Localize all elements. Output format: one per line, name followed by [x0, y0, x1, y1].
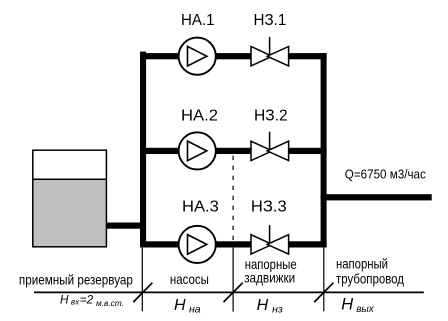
pump НА.1: [179, 38, 216, 75]
svg-text:=2: =2: [80, 293, 94, 306]
svg-text:насосы: насосы: [170, 271, 209, 287]
tank water fill: [33, 179, 106, 246]
right manifold pipe: [321, 53, 327, 247]
svg-text:Н: Н: [60, 293, 69, 306]
branch 2 pipe segment middle: [215, 148, 252, 154]
discharge pipe: [321, 194, 432, 200]
divider line right (x=323.8): [323, 248, 325, 312]
branch 1 pipe segment middle: [215, 53, 252, 59]
svg-text:Н: Н: [257, 297, 269, 314]
left manifold pipe: [140, 52, 146, 248]
branch 1 pipe segment left: [140, 53, 180, 59]
divider line middle (x=233.1): [232, 248, 234, 312]
svg-text:Q=6750 м3/час: Q=6750 м3/час: [345, 167, 426, 181]
valve НЗ.1: [251, 37, 289, 66]
divider line left (x=142.3): [141, 248, 143, 312]
valve НЗ.2: [251, 132, 289, 161]
slash mark 3: [314, 283, 333, 302]
head label Нвх =2 м.в.ст.: [60, 293, 124, 308]
pump НА.3: [179, 226, 216, 263]
svg-text:приемный резервуар: приемный резервуар: [19, 271, 133, 287]
tank water line: [33, 178, 106, 180]
svg-text:напорный: напорный: [336, 255, 388, 271]
branch 2 pipe segment right: [288, 148, 327, 154]
svg-text:на: на: [189, 304, 201, 316]
svg-text:НЗ.1: НЗ.1: [254, 12, 287, 29]
branch 3 pipe segment middle: [215, 241, 252, 247]
svg-text:НА.3: НА.3: [182, 198, 219, 215]
head label Нвых: [341, 295, 375, 314]
branch 1 pipe segment right: [288, 53, 327, 59]
svg-text:вых: вых: [356, 304, 375, 315]
branch 2 pipe segment left: [140, 148, 180, 154]
tank outlet pipe: [106, 223, 140, 229]
svg-text:Н: Н: [174, 297, 186, 314]
pump НА.2: [179, 132, 216, 169]
slash mark 2: [224, 283, 243, 302]
dashed separator line: [232, 156, 234, 242]
branch 3 pipe segment right: [288, 241, 327, 247]
svg-text:задвижки: задвижки: [244, 270, 295, 286]
svg-text:м.в.ст.: м.в.ст.: [96, 298, 124, 308]
slash mark 1: [133, 283, 152, 302]
dimension baseline: [34, 291, 424, 293]
branch 3 pipe segment left: [140, 241, 180, 247]
tank (приемный резервуар) border: [33, 150, 107, 247]
head label Нна: [174, 297, 201, 316]
svg-text:нз: нз: [272, 304, 283, 316]
svg-text:Н: Н: [341, 295, 353, 313]
svg-text:трубопровод: трубопровод: [336, 271, 404, 287]
head label Ннз: [257, 297, 283, 316]
svg-text:вх: вх: [71, 297, 80, 306]
svg-text:НЗ.2: НЗ.2: [254, 107, 288, 124]
svg-text:НА.2: НА.2: [181, 107, 218, 124]
valve НЗ.3: [251, 225, 289, 254]
svg-text:НЗ.3: НЗ.3: [251, 198, 287, 215]
svg-text:НА.1: НА.1: [181, 12, 215, 29]
